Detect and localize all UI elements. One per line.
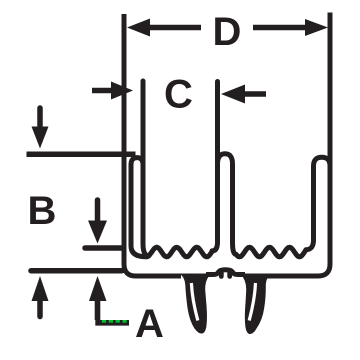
svg-text:B: B: [28, 189, 57, 233]
svg-text:C: C: [164, 73, 193, 117]
svg-text:D: D: [213, 10, 242, 54]
svg-text:A: A: [135, 302, 164, 346]
